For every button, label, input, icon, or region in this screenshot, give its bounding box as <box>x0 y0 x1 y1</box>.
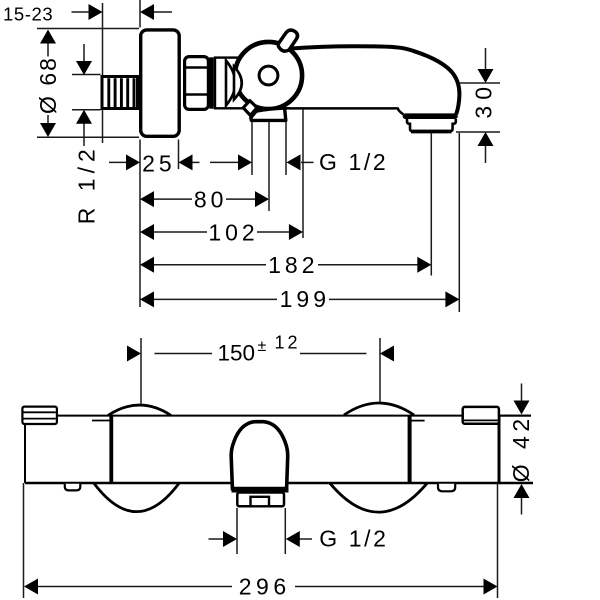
svg-text:G 1/2: G 1/2 <box>319 149 388 175</box>
svg-text:15-23: 15-23 <box>3 4 53 25</box>
svg-text:102: 102 <box>208 219 258 245</box>
svg-text:150: 150 <box>218 341 256 366</box>
svg-text:80: 80 <box>194 186 228 212</box>
svg-text:199: 199 <box>280 286 330 312</box>
svg-text:±: ± <box>258 338 267 355</box>
svg-text:R 1/2: R 1/2 <box>73 144 99 224</box>
svg-text:25: 25 <box>142 150 176 176</box>
svg-text:296: 296 <box>239 573 291 599</box>
svg-text:Ø 68: Ø 68 <box>35 56 61 114</box>
svg-text:30: 30 <box>471 81 497 119</box>
svg-text:G 1/2: G 1/2 <box>319 526 388 552</box>
svg-text:Ø 42: Ø 42 <box>508 414 534 482</box>
svg-text:182: 182 <box>268 252 318 278</box>
svg-text:12: 12 <box>275 332 301 352</box>
